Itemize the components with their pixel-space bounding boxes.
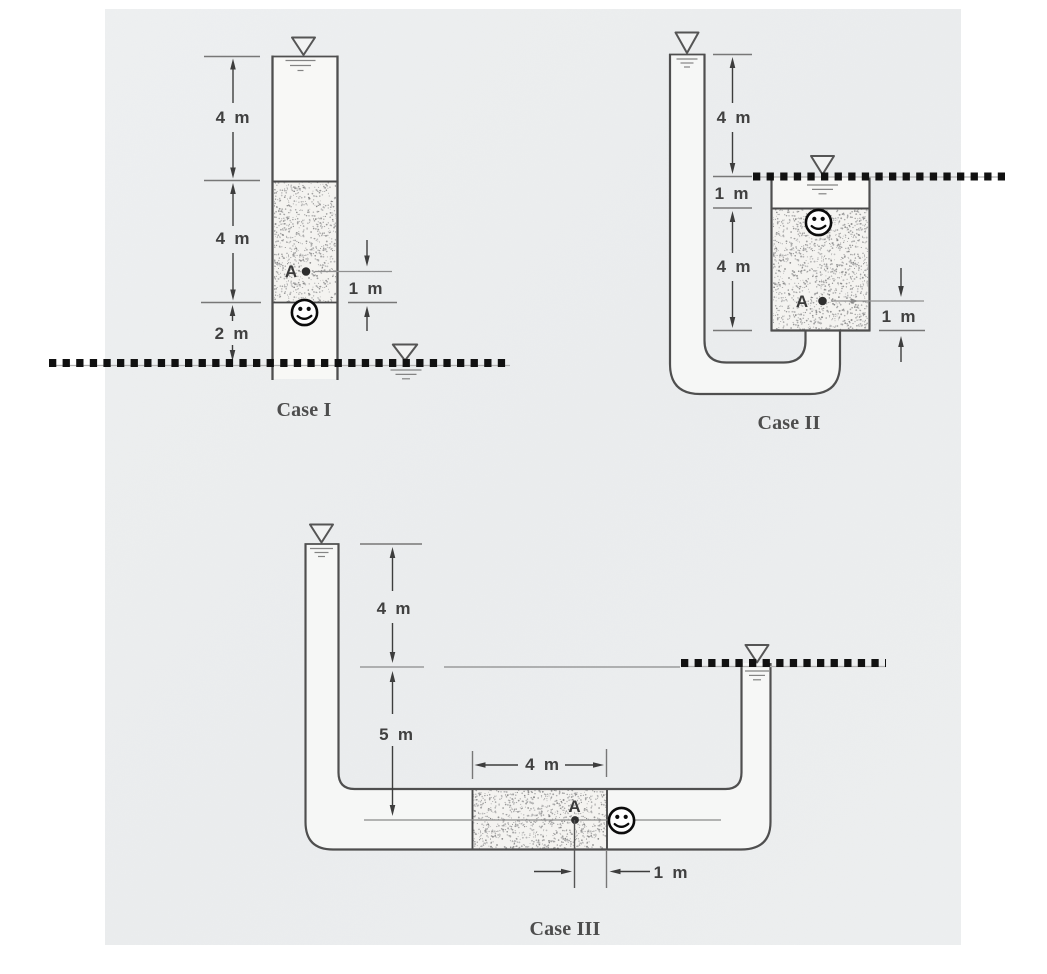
case III right pipe hatch [745,671,769,680]
case II tank soil (stippled) [772,209,869,331]
case III outer boundary [306,544,771,850]
case II tank interior [773,177,869,330]
svg-text:5 m: 5 m [379,725,414,744]
case III datum dotted line [681,663,886,667]
case II point A [796,292,827,311]
case I column walls [272,56,339,381]
svg-text:4 m: 4 m [216,229,251,248]
svg-text:Case II: Case II [757,412,820,434]
case III right water triangle [746,645,769,663]
case II smiley [806,210,831,235]
case III left pipe top line [305,543,340,545]
case III right tick for 1 m [606,851,608,888]
case II caption [757,412,820,434]
case I water hatch below surface [286,61,316,71]
case II leader line from A [831,298,924,303]
case I left dimension ticks [201,57,261,303]
svg-text:4 m: 4 m [377,599,412,618]
case II standpipe and u-tube outer wall [670,54,840,394]
case II standpipe water triangle [676,33,699,54]
case III water level line [360,666,680,668]
svg-text:4 m: 4 m [717,257,752,276]
case II standpipe top line [669,54,706,56]
case I point A [285,262,310,281]
case III dim 4 m (vertical) [377,547,412,663]
case III u-tube water fill [304,544,772,850]
case II standpipe hatch [677,59,698,67]
case II u-tube water fill [670,54,840,394]
case II dim 1 m (right) [879,268,925,362]
case II tank hatch [807,185,838,194]
case I datum water-surface triangle [393,345,417,361]
case III left water triangle [310,525,333,543]
case I top water-surface triangle [292,38,315,56]
case II dim 4 m (upper) [717,57,752,174]
case III dim 5 m [379,671,414,816]
svg-text:2 m: 2 m [215,324,250,343]
case I smiley [292,300,317,325]
case I caption [276,399,331,421]
svg-text:1 m: 1 m [882,307,917,326]
case III inner boundary [339,544,742,790]
case I leader line from A [315,271,392,273]
case III vertical line from A [574,820,576,888]
svg-text:1 m: 1 m [715,184,750,203]
case I datum hatch [391,370,422,379]
case I datum dotted line [49,363,510,366]
case I dim 4 m (middle) [216,183,251,301]
svg-text:4 m: 4 m [525,755,560,774]
svg-text:1 m: 1 m [654,863,689,882]
case III dim 4 m (horizontal) ticks [473,749,607,779]
case II standpipe and u-tube inner wall [705,54,806,363]
case II dim 4 m (lower) [717,211,752,328]
case II dim 1 m (left) [715,184,750,203]
case I column interior [273,57,336,379]
case II tank walls [771,177,871,332]
case III smiley [609,808,634,833]
svg-text:A: A [796,292,808,311]
case III top dimension tick [360,543,422,545]
svg-text:1 m: 1 m [349,279,384,298]
case I dim 1 m [348,240,397,331]
case III soil plug (stippled) [473,788,608,850]
svg-text:Case I: Case I [276,399,331,421]
case II left dimension ticks [713,55,752,331]
case I dim 4 m (top) [216,59,251,179]
scanned page background [105,9,961,945]
case I dim 2 m [215,305,250,361]
case II tank water triangle [811,156,834,175]
case III line through A [364,819,721,821]
svg-text:A: A [285,262,297,281]
svg-text:A: A [568,797,580,816]
case III left pipe hatch [310,549,333,557]
case III dim 1 m [534,863,688,882]
case III caption [529,918,600,940]
case I soil plug (stippled) [273,182,337,303]
svg-text:4 m: 4 m [216,108,251,127]
case II datum dotted line [753,176,1005,179]
svg-text:4 m: 4 m [717,108,752,127]
svg-text:Case III: Case III [529,918,600,940]
case III point A [568,797,580,824]
case III dim 4 m (horizontal) [475,755,605,774]
